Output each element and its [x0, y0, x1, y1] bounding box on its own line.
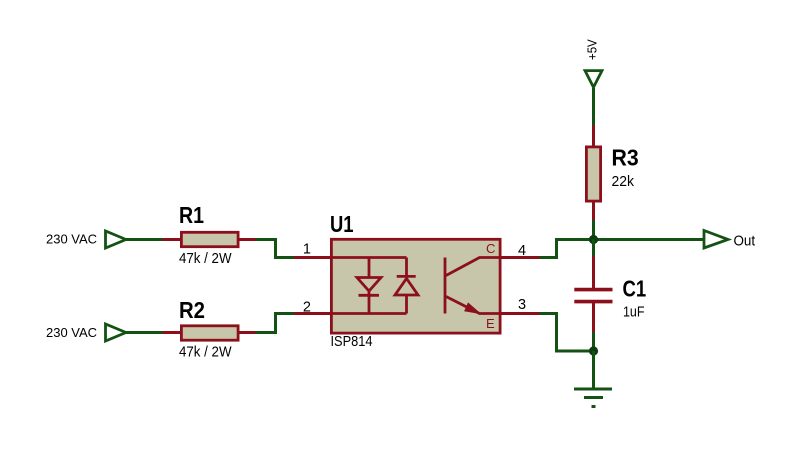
svg-text:3: 3	[518, 297, 526, 313]
svg-text:R1: R1	[179, 202, 204, 228]
svg-text:230 VAC: 230 VAC	[46, 232, 97, 247]
svg-text:230 VAC: 230 VAC	[46, 325, 97, 340]
svg-text:U1: U1	[330, 211, 354, 237]
svg-text:C1: C1	[623, 276, 647, 302]
svg-text:Out: Out	[734, 233, 756, 250]
svg-text:R2: R2	[179, 297, 205, 323]
svg-text:+5V: +5V	[586, 39, 600, 60]
svg-text:1: 1	[303, 242, 311, 258]
svg-text:R3: R3	[612, 144, 639, 170]
svg-text:2: 2	[303, 300, 311, 316]
svg-text:C: C	[486, 241, 495, 256]
svg-text:E: E	[486, 316, 495, 331]
svg-text:1uF: 1uF	[623, 305, 645, 321]
svg-text:22k: 22k	[612, 174, 635, 190]
svg-text:47k / 2W: 47k / 2W	[179, 250, 232, 267]
svg-text:ISP814: ISP814	[331, 333, 373, 350]
svg-text:47k / 2W: 47k / 2W	[179, 344, 232, 361]
